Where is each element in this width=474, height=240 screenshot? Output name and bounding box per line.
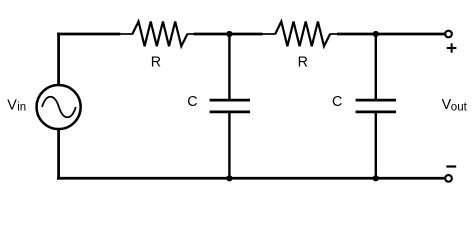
wire left vertical upper (corner to source top)	[57, 33, 60, 86]
svg-text:in: in	[17, 102, 26, 114]
wire R1 left lead (thin)	[120, 33, 133, 35]
wire capacitor C2 top lead	[375, 34, 377, 100]
wire capacitor C2 bottom lead	[375, 113, 377, 179]
AC source sine wave	[42, 97, 76, 118]
output terminal plus (open circle)	[445, 31, 452, 38]
wire between R1 and node A	[194, 33, 263, 36]
capacitor C2 bottom plate	[356, 111, 396, 114]
output terminal minus (open circle)	[445, 175, 452, 182]
wire R2 left lead (thin)	[262, 33, 275, 35]
wire R2 right lead (thin)	[330, 33, 338, 35]
wire R1 right lead (thin)	[187, 33, 194, 35]
svg-text:C: C	[187, 94, 197, 110]
svg-text:V: V	[7, 98, 17, 114]
capacitor C2 top plate	[356, 99, 396, 102]
svg-text:R: R	[151, 55, 161, 71]
svg-text:C: C	[332, 94, 342, 110]
wire left vertical lower (source bottom to bottom rail)	[57, 129, 60, 180]
wire top-left horizontal (source to R1)	[57, 33, 120, 36]
resistor R2 zigzag	[275, 22, 330, 47]
node A bottom junction dot	[226, 175, 232, 181]
wire bottom rail	[57, 177, 445, 180]
wire capacitor C1 bottom lead	[228, 113, 230, 179]
capacitor C1 top plate	[210, 99, 250, 102]
svg-text:out: out	[451, 102, 468, 114]
capacitor C1 bottom plate	[210, 111, 250, 114]
node B junction dot	[373, 31, 379, 37]
wire capacitor C1 top lead	[228, 34, 230, 100]
plus sign	[447, 47, 457, 49]
wire between R2 and node B / output	[337, 33, 445, 36]
AC source U1 circle	[37, 85, 81, 129]
node B bottom junction dot	[373, 175, 379, 181]
svg-text:R: R	[298, 55, 308, 71]
minus sign	[446, 165, 456, 167]
node A junction dot	[226, 31, 232, 37]
resistor R1 zigzag	[132, 22, 187, 47]
